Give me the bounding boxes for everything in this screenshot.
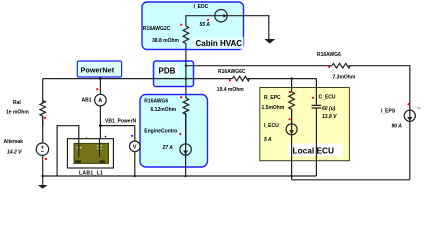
svg-text:Ral: Ral [13, 100, 21, 106]
ammeter AB1 [99, 79, 101, 139]
resistor R_EPC 1.5mOhm branch [291, 79, 293, 92]
svg-text:1e mOhm: 1e mOhm [6, 109, 29, 115]
svg-text:19.4 mOhm: 19.4 mOhm [217, 87, 245, 93]
wire: engine source bottom to ground rail [185, 113, 187, 176]
svg-text:R_EPC: R_EPC [264, 95, 281, 101]
svg-text:R16AWG6: R16AWG6 [317, 52, 341, 58]
red pin dot I_EPS top [408, 103, 410, 105]
junction dots [99, 77, 102, 80]
svg-text:R18AWG2C: R18AWG2C [143, 26, 171, 32]
svg-text:PowerNet: PowerNet [81, 66, 115, 75]
svg-text:I_EDC: I_EDC [194, 4, 209, 10]
current source I_EDC 55A [215, 10, 227, 22]
red pin dot Ral bottom [44, 117, 46, 119]
red pin dot engine resistor top [180, 96, 182, 98]
svg-text:EngineContro: EngineContro [144, 128, 177, 134]
svg-text:A: A [98, 98, 102, 104]
hierarchical block Cabin HVAC (box) [142, 2, 244, 50]
wire: PDB right output to top-right branch [186, 66, 410, 180]
svg-text:LAB1_L1: LAB1_L1 [79, 170, 103, 176]
ground symbol (bottom left) [42, 176, 44, 185]
capacitor C_ECU 60u [312, 105, 322, 108]
red pin dot R_EPC top [289, 91, 291, 93]
current source I_EPS 90A [404, 110, 415, 121]
svg-text:27 A: 27 A [162, 145, 174, 151]
red pin dot AB1 top [96, 88, 98, 90]
resistor R16AWG6 7.3mOhm (horizontal zigzag) [332, 63, 351, 68]
Local ECU title label [289, 144, 343, 157]
voltmeter VB1 [134, 126, 136, 176]
svg-text:Altemak: Altemak [4, 139, 24, 145]
ground (cabin HVAC) [264, 39, 275, 44]
net label box PowerNet [77, 61, 121, 77]
resistor Ral (vertical zigzag) [40, 101, 46, 127]
svg-text:PDB: PDB [159, 67, 176, 76]
resistor R16AWG6C 19.4mOhm (horizontal zigzag) [232, 76, 249, 81]
svg-text:~: ~ [417, 106, 421, 113]
svg-text:14.2 V: 14.2 V [7, 150, 22, 156]
red pin dots R16AWG6C [229, 79, 231, 81]
svg-text:55 A: 55 A [200, 22, 211, 28]
wire: I_ECU bottom to lower rail [291, 110, 293, 180]
red pin dot R18AWG2C top [180, 24, 182, 26]
resistor R16AWG6 6.12mOhm (vertical zigzag) [183, 98, 189, 144]
lower right ground rail [292, 179, 410, 181]
svg-text:90 A: 90 A [392, 124, 403, 130]
battery LAB1_L1 [67, 134, 113, 168]
red pin dot engine source top [179, 133, 181, 135]
wire: main vertical from cabin resistor through PDB to engine box [185, 43, 187, 98]
svg-text:5 A: 5 A [264, 137, 272, 143]
wire: PowerNet label tick [99, 77, 101, 79]
Cabin HVAC title label [192, 37, 244, 49]
svg-text:AB1: AB1 [82, 98, 92, 104]
current source I_ECU 5A [286, 124, 297, 135]
current source 27A (engine) [180, 144, 191, 155]
hierarchical block EngineController (box) [140, 95, 208, 168]
wire: main horizontal PowerNet rail [43, 78, 317, 80]
svg-text:Local ECU: Local ECU [293, 146, 335, 156]
voltage source Altemak 14.2V [36, 143, 48, 155]
red pin dot C_ECU top [312, 97, 314, 99]
hierarchical block PDB (box) [154, 61, 194, 87]
wire segments over Local ECU label [292, 144, 317, 157]
svg-text:R16AWG6: R16AWG6 [144, 98, 168, 104]
svg-text:Cabin HVAC: Cabin HVAC [196, 39, 243, 48]
svg-text:6.12mOhm: 6.12mOhm [151, 107, 177, 113]
resistor R18AWG2C 38.8mOhm (vertical zigzag) [183, 26, 189, 44]
red pin dot I_EDC [207, 19, 209, 21]
svg-text:+: + [104, 134, 107, 139]
svg-text:13.8 V: 13.8 V [322, 114, 337, 120]
wire: junction to voltmeter branch [100, 125, 134, 127]
svg-text:VB1_PowerN: VB1_PowerN [105, 118, 137, 124]
node VB1_PowerN junction [99, 124, 102, 127]
svg-text:C_ECU: C_ECU [319, 94, 336, 100]
svg-text:38.8 mOhm: 38.8 mOhm [152, 38, 180, 44]
red pin dot I_ECU top [289, 118, 291, 120]
hierarchical block Local ECU (box) [260, 88, 350, 161]
svg-text:60 (u): 60 (u) [322, 106, 336, 112]
wire: rail left corner down [42, 79, 44, 103]
red pin dot source bottom [45, 158, 47, 160]
battery left terminal wire to ground [57, 126, 79, 176]
wire: left branch down to ground rail [42, 116, 44, 176]
wire: rail corner down to C_ECU [315, 79, 317, 176]
svg-text:I_EPS: I_EPS [381, 109, 396, 115]
svg-text:I_ECU: I_ECU [264, 123, 279, 129]
svg-text:V: V [133, 145, 137, 151]
wire: cabin top rail from R18AWG2C top to ground corner [186, 16, 269, 39]
red pin dot 7.3mOhm left [328, 66, 330, 68]
ground rail (bottom left) [43, 175, 317, 177]
svg-text:R16AWG6C: R16AWG6C [218, 69, 246, 75]
svg-text:7.3mOhm: 7.3mOhm [333, 75, 356, 81]
label PDB [157, 64, 180, 77]
svg-text:1.5mOhm: 1.5mOhm [262, 105, 285, 111]
